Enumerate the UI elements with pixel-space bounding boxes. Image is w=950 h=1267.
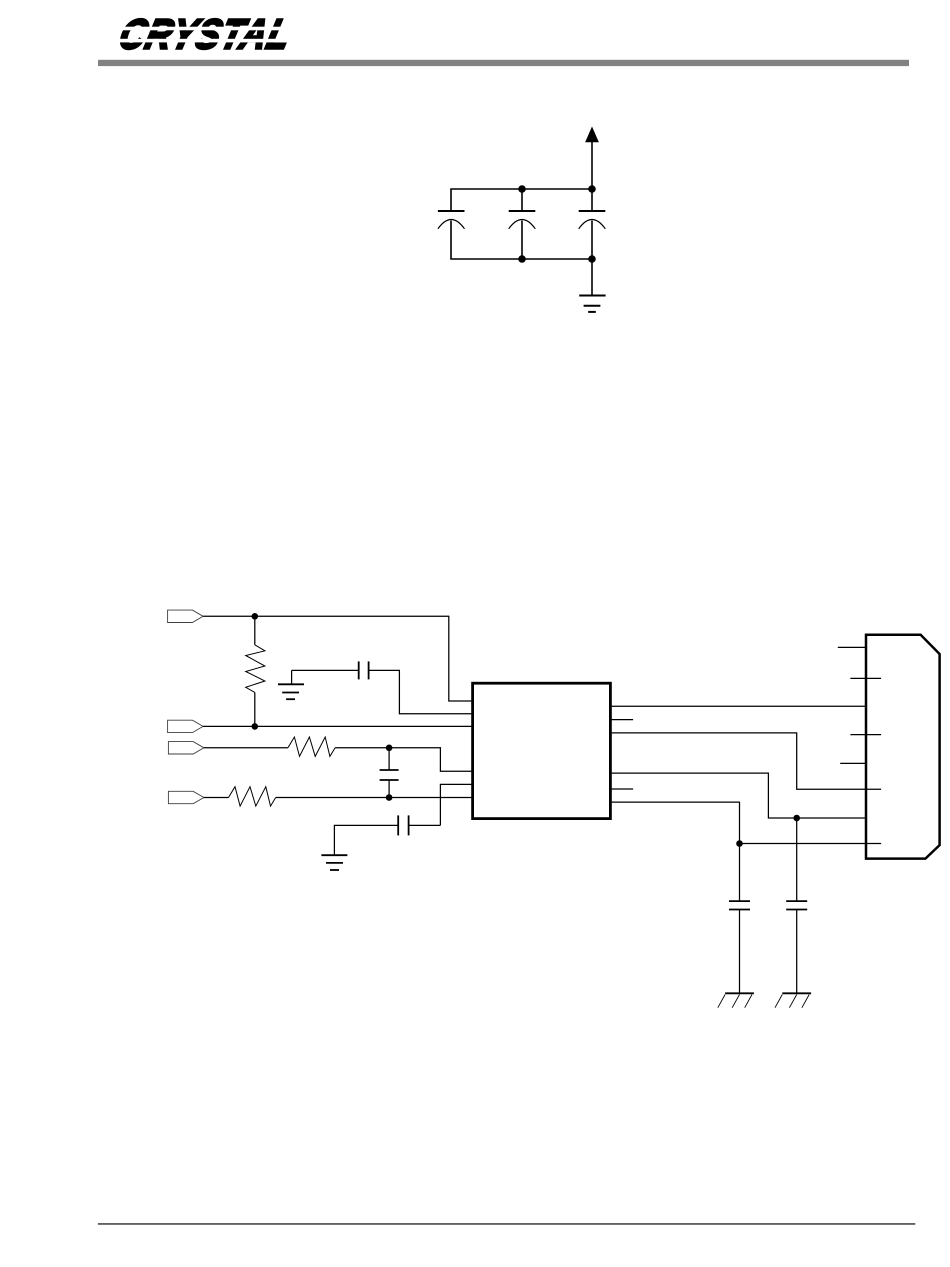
node R1 top bbox=[252, 613, 259, 620]
pin stub P1-1 bbox=[838, 646, 866, 648]
svg-text:CRYSTAL: CRYSTAL bbox=[115, 11, 297, 58]
wire G1 to C4 bbox=[292, 669, 359, 671]
connector J3 bbox=[168, 742, 204, 754]
node C5 bottom bbox=[386, 794, 393, 801]
capacitor C6 bbox=[398, 815, 408, 835]
header rule bbox=[98, 60, 909, 66]
ground bbox=[579, 259, 605, 312]
resistor R2 bbox=[288, 737, 335, 756]
wire U1 pinR4 to P1 bbox=[612, 773, 867, 818]
connector J4 bbox=[168, 791, 204, 803]
wire bottom rail bbox=[451, 221, 592, 260]
chassis ground G4 bbox=[775, 993, 811, 1007]
capacitor C5 bbox=[380, 748, 399, 798]
wire J1 to U1 pin1 bbox=[203, 616, 471, 701]
pin stub R2 bbox=[612, 719, 634, 721]
wire C6 right lead bbox=[409, 824, 441, 826]
capacitor C2 bbox=[509, 189, 536, 259]
wire C7 to chassis ground bbox=[796, 910, 798, 994]
junction dots main circuit bbox=[252, 613, 801, 847]
Crystal logo bbox=[106, 11, 296, 58]
ground G2 bbox=[321, 855, 347, 870]
node R1 bottom bbox=[252, 723, 259, 730]
wire U1 pinR3 to P1 bbox=[612, 733, 882, 789]
wire C8 lead bbox=[739, 844, 741, 902]
connector J2 bbox=[168, 720, 204, 732]
capacitor C4 bbox=[359, 661, 369, 679]
wire U1 pin5 to C6 bbox=[440, 784, 471, 825]
pin stub P1-5 bbox=[840, 762, 866, 764]
IC U1 bbox=[473, 683, 611, 818]
node C7 bbox=[793, 815, 800, 822]
wire top rail bbox=[451, 189, 592, 211]
wire C8 to chassis ground bbox=[739, 910, 741, 994]
node C8 bbox=[736, 840, 743, 847]
chassis ground G3 bbox=[718, 993, 754, 1007]
capacitor C3 bbox=[579, 189, 606, 259]
power arrow VA+ bbox=[585, 127, 599, 190]
connector J1 bbox=[168, 610, 204, 622]
junction dots top circuit bbox=[518, 185, 596, 263]
wire C6 to G2 bbox=[334, 825, 398, 855]
capacitor C1 bbox=[438, 211, 465, 229]
wire J2 to U1 pin3 bbox=[203, 725, 471, 727]
pin stub R5 bbox=[612, 788, 634, 790]
wire R2 to U1 pin4 bbox=[335, 748, 471, 771]
wire C7 lead bbox=[796, 818, 798, 901]
capacitor C7 bbox=[786, 901, 807, 909]
pin tick P1-4 bbox=[850, 734, 881, 736]
connector P1 bbox=[866, 635, 940, 859]
wire R3 to U1 pin6 bbox=[276, 797, 472, 799]
node C5 top bbox=[386, 745, 393, 752]
wire J4 to R3 bbox=[204, 797, 229, 799]
ground G1 bbox=[278, 670, 304, 699]
capacitor C8 bbox=[729, 901, 750, 909]
footer rule bbox=[98, 1223, 915, 1225]
resistor R1 bbox=[246, 616, 265, 726]
wire J3 to R2 bbox=[204, 747, 288, 749]
wire C4 to U1 pin2 bbox=[369, 670, 472, 713]
pin tick P1-2 bbox=[850, 677, 881, 679]
resistor R3 bbox=[229, 787, 276, 806]
wire U1 pinR1 to P1 bbox=[612, 705, 867, 707]
wire U1 pinR6 to P1 bbox=[612, 802, 882, 843]
